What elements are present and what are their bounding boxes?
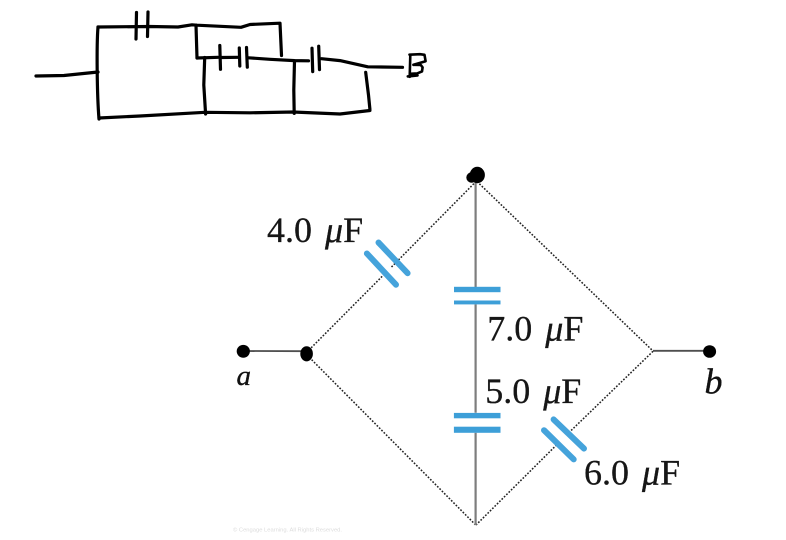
wire box3 right vertical xyxy=(366,72,370,109)
node top junction dot xyxy=(466,167,485,183)
svg-text:b: b xyxy=(705,362,723,402)
capacitor 7.0uF plates (blue) xyxy=(454,287,501,305)
label B (hand-drawn) xyxy=(408,54,426,77)
svg-text:7.0 μF: 7.0 μF xyxy=(487,309,583,349)
capacitor C1 plate left xyxy=(134,13,138,40)
terminal a dot xyxy=(237,345,250,358)
capacitor C3 plate left xyxy=(310,48,314,71)
wire box3 left vertical xyxy=(292,61,296,114)
wire junction vertical xyxy=(196,25,197,58)
wire bottom bus xyxy=(99,111,370,119)
capacitor 6.0uF plates (blue) xyxy=(544,419,584,459)
capacitor C3 plate right xyxy=(317,46,321,69)
capacitor C2 plate 1 xyxy=(218,46,222,70)
wire diagonal bottom-b (lower right), broken at 6.0uF cap xyxy=(568,351,654,434)
terminal b dot xyxy=(703,345,716,358)
wire cap2 to cap3 xyxy=(249,58,309,61)
capacitor 5.0uF plates (blue) xyxy=(454,413,501,433)
capacitor C2 plate 2 xyxy=(238,48,242,66)
svg-text:a: a xyxy=(237,360,252,392)
capacitor 4.0uF plates (blue) xyxy=(367,243,408,285)
node a junction dot xyxy=(300,346,313,361)
wire diagonal top-b (upper right) xyxy=(477,182,653,352)
wire box2 left down vertical xyxy=(204,58,206,115)
svg-text:© Cengage Learning. All Rights: © Cengage Learning. All Rights Reserved. xyxy=(233,527,342,534)
hand-drawn sketch: left lead wire xyxy=(36,12,403,119)
wire box1 left vertical xyxy=(97,27,99,119)
wire vertical middle branch xyxy=(475,182,477,525)
capacitor C1 plate right xyxy=(146,12,150,37)
wire lead b xyxy=(653,350,710,352)
capacitor C2 plate 3 xyxy=(245,48,249,68)
wire lead-in xyxy=(36,72,98,76)
wire cap2 left stub xyxy=(197,56,218,60)
wire cap3 to B xyxy=(322,59,403,68)
wire lead a xyxy=(243,350,306,352)
svg-text:6.0 μF: 6.0 μF xyxy=(584,453,680,493)
svg-text:4.0 μF: 4.0 μF xyxy=(267,210,363,250)
wire box1+box2 top xyxy=(98,23,282,55)
diamond bridge: wire diagonal a-top (upper left) xyxy=(307,182,654,526)
wire cap2 middle xyxy=(222,56,239,59)
svg-text:5.0 μF: 5.0 μF xyxy=(485,371,581,411)
wire diagonal a-bottom (lower left) xyxy=(307,355,476,525)
